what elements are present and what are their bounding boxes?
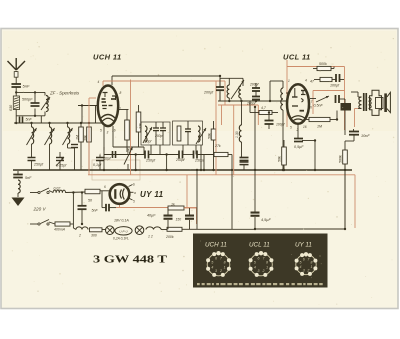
wire — [102, 229, 106, 231]
junction — [240, 100, 242, 102]
wire — [333, 67, 335, 69]
junction — [66, 122, 68, 124]
svg-text:8: 8 — [120, 91, 122, 95]
wire — [218, 100, 265, 102]
wire — [331, 68, 334, 70]
junction — [34, 115, 36, 117]
label X — [78, 234, 81, 238]
svg-text:630: 630 — [9, 104, 13, 111]
svg-text:4: 4 — [300, 265, 302, 269]
wire — [332, 79, 336, 81]
wire — [118, 109, 129, 111]
svg-text:200pf: 200pf — [203, 91, 214, 95]
wire — [354, 175, 356, 228]
wire heater red — [215, 121, 217, 175]
wire — [255, 91, 257, 97]
wire — [68, 147, 75, 149]
label 100pF fb — [330, 84, 340, 88]
coil IF2 secondary — [198, 126, 200, 142]
label 5nF line — [92, 209, 99, 213]
svg-text:4,7: 4,7 — [261, 106, 266, 110]
junction — [203, 169, 205, 171]
wire — [353, 135, 355, 141]
coil heater tap — [146, 227, 161, 230]
wire — [228, 78, 230, 85]
svg-text:1M: 1M — [317, 125, 322, 129]
svg-text:22k: 22k — [139, 123, 143, 130]
svg-text:200pf: 200pf — [246, 102, 257, 106]
junction — [282, 169, 284, 171]
svg-text:50k: 50k — [208, 133, 212, 139]
wire — [345, 140, 354, 142]
svg-text:2: 2 — [219, 269, 222, 273]
wire — [49, 144, 51, 170]
wire — [219, 92, 221, 101]
wire — [233, 105, 235, 175]
junction — [268, 111, 270, 113]
label 0.1uF — [93, 163, 102, 167]
wire — [189, 220, 191, 229]
svg-text:16: 16 — [303, 125, 307, 129]
wire — [49, 123, 51, 127]
label 1M — [76, 135, 80, 140]
wire — [101, 191, 103, 208]
coil antenna 630 — [13, 96, 19, 110]
junction — [165, 169, 167, 171]
wire — [72, 193, 74, 225]
wire — [344, 141, 346, 150]
label 250pF c — [194, 159, 205, 163]
svg-text:27k: 27k — [214, 144, 221, 148]
svg-text:6: 6 — [310, 106, 312, 110]
wire — [31, 144, 33, 157]
wire — [162, 122, 164, 128]
svg-text:5: 5 — [290, 126, 292, 130]
wire — [95, 106, 97, 124]
wire — [340, 79, 345, 81]
wire — [221, 105, 223, 125]
wire — [200, 145, 202, 170]
label 100pF — [276, 123, 286, 127]
wire — [89, 97, 96, 99]
junction — [103, 169, 105, 171]
tube UCH11 envelope — [98, 86, 118, 127]
wire — [102, 207, 106, 209]
capacitor 250pF c — [194, 151, 198, 159]
wire — [220, 77, 243, 79]
wire — [344, 67, 346, 131]
svg-text:6: 6 — [258, 257, 260, 261]
wire — [109, 207, 116, 209]
label UCL 11 — [283, 53, 311, 62]
wire — [283, 165, 285, 170]
svg-text:220 V: 220 V — [33, 207, 47, 212]
wire — [66, 191, 86, 194]
resistor 500k top — [317, 66, 331, 70]
IF transformer box 1 — [141, 122, 170, 145]
title 3GW448T — [93, 254, 168, 266]
label 10nF — [361, 134, 370, 138]
wire — [31, 123, 33, 127]
wire — [78, 105, 98, 107]
junction — [255, 100, 257, 102]
svg-text:250pf: 250pf — [145, 159, 156, 163]
pin 5 ucl — [290, 126, 292, 130]
tube socket panel — [193, 234, 328, 288]
wire — [197, 228, 255, 230]
wire — [111, 76, 113, 85]
fuse 400mA — [55, 222, 70, 226]
capacitor osc pad — [240, 158, 249, 161]
svg-text:1: 1 — [266, 265, 268, 269]
wire — [40, 116, 42, 123]
label 40uF — [147, 214, 156, 218]
svg-text:2: 2 — [306, 268, 309, 272]
wire — [70, 223, 73, 225]
capacitor 40uF b — [185, 215, 194, 220]
wire — [304, 119, 309, 121]
svg-text:UY 11: UY 11 — [140, 190, 164, 199]
tube UCL11 electrodes — [291, 88, 307, 122]
wire — [100, 190, 110, 192]
wire — [143, 147, 145, 155]
svg-text:18V 0,1A: 18V 0,1A — [114, 219, 129, 223]
wire — [30, 192, 38, 194]
pin 1 ucl — [288, 79, 290, 83]
junction — [81, 104, 83, 106]
capacitor 10nF — [349, 132, 359, 135]
tuning arrow 2 — [45, 128, 55, 145]
label 4.7 — [261, 106, 266, 110]
capacitor 5nF coupling — [20, 117, 23, 124]
transformer core — [363, 93, 367, 111]
coil sperrkreis — [46, 96, 48, 112]
wire — [330, 119, 337, 121]
wire — [219, 90, 221, 101]
junction — [344, 169, 346, 171]
junction — [72, 191, 74, 193]
wire — [74, 157, 76, 170]
wire — [314, 79, 320, 81]
svg-text:1 2: 1 2 — [148, 235, 153, 239]
wire — [88, 123, 90, 127]
label 0.5uF — [294, 145, 304, 149]
wire — [255, 83, 257, 88]
svg-text:5nF: 5nF — [92, 209, 99, 213]
svg-text:4: 4 — [211, 265, 213, 269]
junction — [219, 75, 221, 77]
resistor 22k — [136, 112, 141, 132]
capacitor 3nF mains — [13, 175, 23, 178]
label barretter — [113, 237, 129, 241]
svg-text:250pf: 250pf — [33, 163, 44, 167]
wire — [243, 165, 245, 170]
tube UY11 envelope — [110, 184, 130, 204]
wire — [167, 220, 169, 229]
lamp barretter oval — [115, 227, 132, 235]
wire — [182, 228, 197, 230]
svg-text:150pf: 150pf — [143, 140, 152, 144]
label 50k osc — [278, 156, 282, 162]
capacitor 250pF b — [179, 151, 183, 159]
wire — [228, 154, 232, 156]
wire — [270, 80, 283, 82]
resistor 4.7k — [259, 111, 272, 115]
tuning arrow 1 — [27, 128, 37, 145]
svg-text:UY 11: UY 11 — [295, 242, 312, 249]
wire — [73, 228, 76, 230]
capacitor 200pF osc a — [252, 88, 260, 91]
pin stub b — [129, 185, 133, 187]
capacitor 100pF fb — [336, 74, 340, 82]
svg-text:3: 3 — [215, 269, 217, 273]
svg-text:1k: 1k — [171, 203, 175, 207]
capacitor 200pF osc b — [252, 97, 260, 100]
resistor 30k — [87, 127, 92, 142]
wire — [268, 113, 270, 121]
label 150pF — [143, 140, 152, 144]
wire — [44, 92, 46, 95]
svg-text:0,02: 0,02 — [54, 187, 61, 191]
wire — [224, 81, 226, 105]
svg-text:U·P·U: U·P·U — [119, 229, 128, 233]
wire — [159, 145, 161, 155]
junction — [254, 228, 256, 230]
wire — [72, 224, 74, 228]
capacitor 150pF — [153, 128, 159, 131]
tube UY11 electrodes — [114, 189, 124, 200]
pin 6 uy — [104, 185, 106, 189]
junction — [34, 91, 36, 93]
svg-text:UCH 11: UCH 11 — [93, 53, 122, 62]
svg-text:250pf: 250pf — [175, 158, 186, 162]
wire — [351, 91, 358, 93]
wire — [286, 60, 288, 127]
svg-text:UCH 11: UCH 11 — [205, 242, 227, 249]
capacitor 0.5nF — [336, 95, 340, 103]
svg-text:a: a — [134, 191, 136, 195]
wire — [195, 145, 197, 155]
wire — [67, 123, 69, 127]
junction — [196, 169, 198, 171]
wire — [104, 154, 145, 156]
wire — [150, 145, 152, 155]
switch mains a — [38, 188, 49, 194]
svg-text:50k: 50k — [278, 156, 282, 162]
svg-text:b: b — [133, 183, 135, 187]
wire — [31, 161, 33, 171]
svg-text:7: 7 — [311, 100, 313, 104]
wire — [255, 228, 345, 230]
junction — [344, 228, 346, 230]
wire — [74, 148, 76, 158]
svg-text:3: 3 — [303, 268, 305, 272]
wire — [186, 175, 188, 208]
resistor 1M — [79, 127, 84, 142]
wire — [116, 207, 187, 209]
wire — [314, 141, 316, 171]
wire — [59, 161, 61, 171]
coil osc 2 — [239, 86, 241, 98]
wire — [49, 191, 53, 193]
transformer primary — [359, 97, 362, 109]
label 5nF mains — [25, 176, 32, 180]
wire red 1k — [184, 207, 197, 209]
wire — [196, 208, 198, 225]
svg-text:3: 3 — [107, 131, 109, 135]
wire — [16, 91, 45, 93]
junction — [48, 122, 50, 124]
wire — [357, 92, 359, 97]
label 200pF osc b — [246, 102, 257, 106]
IF1 arrow — [143, 127, 152, 143]
tube UCL11 envelope — [287, 84, 309, 124]
resistor 50 — [85, 189, 100, 194]
capacitor 250pF a — [145, 151, 149, 159]
svg-text:0,5nF: 0,5nF — [314, 104, 324, 108]
wire — [254, 107, 256, 213]
ground — [17, 171, 19, 174]
svg-text:250pf: 250pf — [194, 159, 205, 163]
wire — [166, 155, 168, 171]
pin 4 — [98, 80, 100, 84]
wire — [250, 112, 259, 114]
wire — [231, 170, 233, 229]
wire — [15, 110, 17, 124]
wire — [196, 169, 198, 229]
wire — [15, 87, 17, 96]
capacitor 250pF tuning — [28, 158, 36, 161]
wire — [14, 122, 104, 124]
coil osc 1 — [227, 85, 229, 98]
wire — [161, 229, 167, 231]
capacitor IF2 — [185, 129, 191, 132]
label 5-25pF — [56, 164, 67, 168]
svg-text:150: 150 — [176, 218, 182, 222]
wire — [339, 98, 345, 100]
label 30k — [84, 135, 88, 141]
label 1k — [171, 203, 175, 207]
pin stub 5 — [129, 198, 133, 200]
capacitor 100pF osc — [265, 121, 274, 125]
svg-text:8: 8 — [266, 260, 268, 264]
trimmer 0.5nF arrow — [316, 96, 329, 102]
junction — [314, 139, 316, 141]
svg-text:3 GW 448 T: 3 GW 448 T — [93, 254, 168, 266]
resistor 50k osc — [282, 147, 287, 165]
wire — [189, 208, 191, 215]
coil tuning 2 — [50, 127, 52, 144]
svg-text:10nF: 10nF — [361, 134, 370, 138]
wire — [269, 81, 271, 101]
svg-text:100pf: 100pf — [276, 123, 286, 127]
label 200pF osc a — [249, 83, 260, 87]
junction — [135, 153, 137, 155]
svg-text:2: 2 — [262, 269, 265, 273]
label UY 11 — [140, 190, 164, 199]
wire — [99, 155, 101, 158]
label 0.02 — [54, 187, 61, 191]
wire — [344, 111, 346, 136]
wire — [282, 81, 284, 88]
svg-text:5: 5 — [211, 260, 213, 264]
label 300 — [91, 234, 97, 238]
wire — [103, 80, 225, 82]
wire — [81, 106, 83, 124]
svg-text:0,1µf: 0,1µf — [93, 163, 102, 167]
capacitor 4.5uF — [251, 212, 260, 217]
svg-text:500k: 500k — [339, 155, 343, 163]
resistor 1k — [168, 206, 184, 210]
wire — [313, 68, 317, 70]
junction — [80, 122, 82, 124]
svg-text:500pF: 500pF — [22, 98, 33, 102]
capacitor 5nF line — [78, 206, 87, 209]
wire — [155, 131, 157, 145]
wire — [242, 78, 244, 86]
wire — [88, 98, 90, 175]
label 220V — [33, 207, 47, 212]
label 150 — [176, 218, 182, 222]
tuning arrow 3 — [63, 128, 73, 145]
wire — [113, 146, 144, 148]
label 630 — [9, 104, 13, 111]
label 50pF series — [104, 157, 112, 161]
inductor 0.02 — [53, 190, 66, 193]
label 250pF b — [175, 158, 186, 162]
wire — [80, 142, 82, 170]
wire chassis bus red — [88, 174, 355, 176]
wire — [135, 155, 137, 171]
junction — [254, 106, 256, 108]
IF2 coil arrow — [196, 128, 206, 144]
wire — [215, 81, 217, 121]
svg-text:500k: 500k — [319, 62, 327, 66]
pin 16 — [112, 129, 116, 133]
svg-text:300: 300 — [91, 234, 97, 238]
capacitor 40uF a — [164, 215, 173, 220]
wire — [138, 105, 140, 112]
label 200k — [165, 235, 174, 239]
pin 4 ucl — [305, 79, 307, 83]
wire — [310, 98, 316, 100]
wire — [34, 92, 36, 103]
wire — [167, 208, 169, 215]
pin stub a — [129, 191, 133, 193]
resistor 300 — [90, 228, 103, 232]
pin 7 ucl — [311, 100, 313, 104]
wire — [149, 154, 180, 156]
svg-text:100pf: 100pf — [330, 84, 340, 88]
junction — [165, 153, 167, 155]
wire — [182, 145, 184, 155]
label 400mA — [54, 228, 66, 232]
coil UCL grid — [281, 88, 283, 110]
wire — [126, 110, 128, 121]
wire — [358, 108, 362, 110]
wire — [257, 105, 259, 125]
wire — [344, 99, 346, 103]
capacitor 0.5uF out — [294, 139, 303, 142]
svg-text:200pf: 200pf — [249, 83, 260, 87]
coil tuning 3 — [68, 127, 70, 144]
svg-text:6: 6 — [303, 257, 305, 261]
antenna — [8, 58, 26, 84]
wire — [203, 155, 205, 171]
junction — [81, 191, 83, 193]
wire — [254, 217, 256, 229]
svg-text:0,5µF: 0,5µF — [294, 145, 304, 149]
